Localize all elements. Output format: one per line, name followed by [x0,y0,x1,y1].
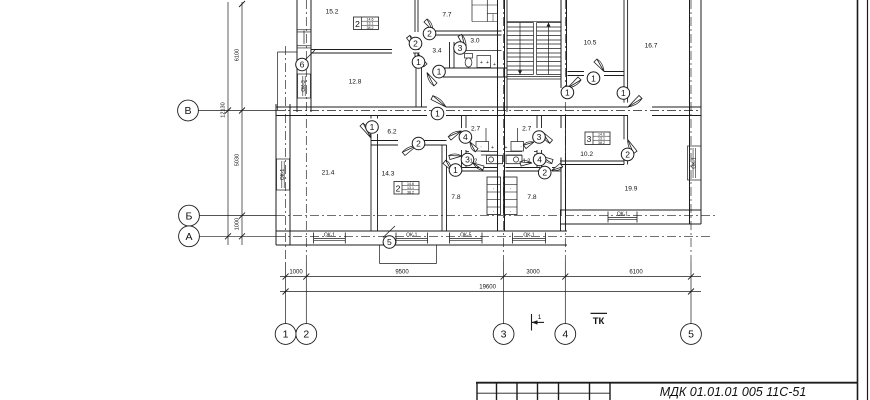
door 1 room 10.5 [594,59,604,72]
door 1 room 16.7 [628,96,642,108]
right wing left wall lower [560,158,562,216]
svg-text:3: 3 [537,132,542,142]
closet block top right [471,0,473,22]
window ОК-5 bottom [449,233,451,244]
svg-text:·: · [520,145,522,151]
svg-text:2: 2 [427,29,432,39]
svg-text:10.2: 10.2 [580,151,593,158]
svg-text:4: 4 [562,329,568,341]
bathroom unit mid wall right [506,151,523,153]
right wing bottom wall [560,209,701,211]
window ОК-1 right wing bottom [607,212,609,223]
svg-text:10.5: 10.5 [584,40,597,47]
svg-text:1000: 1000 [235,218,241,230]
svg-text:В: В [184,105,191,117]
svg-text:·: · [509,209,511,215]
svg-text:6.2: 6.2 [387,129,396,136]
svg-text:4: 4 [537,155,542,165]
axis line 3 vertical [503,0,505,262]
window ОК-1 left wall [277,159,290,190]
vent shaft right [504,177,518,215]
axis bubble А [179,226,200,247]
window ОК-1 bottom 3 [512,233,514,244]
axis line 2 vertical [305,0,307,262]
svg-text:1: 1 [565,87,570,97]
bath tub left 1.2 [487,155,503,163]
svg-text:16.7: 16.7 [645,43,658,50]
title block top border [476,382,858,384]
wall right of 15.2 [414,0,416,32]
svg-text:ОК-1: ОК-1 [280,169,286,180]
entrance porch [379,245,381,264]
kitchen top wall right [506,167,541,169]
axis line В horizontal [199,110,277,112]
svg-text:·: · [480,145,482,151]
toilet WC [465,54,473,59]
svg-text:38.2: 38.2 [598,141,605,145]
svg-text:3.0: 3.0 [470,38,479,45]
svg-text:2: 2 [413,39,418,49]
svg-text:1: 1 [437,67,442,77]
axis bubble 3 [493,324,514,345]
window ОК-1 right wall [688,146,702,180]
svg-text:ОК-3: ОК-3 [301,80,307,91]
stair wall right edge [506,0,508,112]
svg-text:9500: 9500 [395,270,409,276]
door 1 hall 3.4 [418,54,427,67]
svg-text:5: 5 [387,237,392,247]
svg-text:6: 6 [300,60,305,70]
svg-text:2: 2 [396,184,401,194]
sheet frame right inner line [857,0,859,400]
svg-text:1: 1 [538,314,542,321]
axis bubble В [178,100,199,121]
svg-text:5: 5 [688,329,694,341]
washbasin left 2.7 [476,142,489,152]
title block column lines [496,383,498,400]
window ОК-1 bottom 2 [395,233,397,244]
bathroom bottom wall [443,67,507,69]
legend table 2 room 15.2 [354,17,379,30]
corridor wall [276,106,427,108]
room 10.5 bottom wall [568,71,585,73]
svg-text:ОК-1: ОК-1 [523,233,534,239]
door 3 WC [458,34,466,50]
svg-text:3.4: 3.4 [432,48,441,55]
title block left edge [476,383,478,400]
wall between 10.2 and 19.9 [623,116,625,140]
svg-text:3: 3 [501,329,507,341]
door 2 room 19.9 [628,139,637,153]
window ОК-1 bottom 1 [313,233,315,244]
svg-text:1: 1 [416,57,421,67]
axis line 5 vertical [690,0,692,262]
bath WC [477,56,491,68]
bottom dimension line row2 [280,291,701,293]
svg-text:+: + [491,145,494,151]
wall between 21.4 and hall [370,116,372,119]
door 2 room 15.2 wall [407,35,416,49]
title block row line [477,392,610,394]
axis bubble Б [179,205,200,226]
kitchen top wall left [462,167,498,169]
door 1 apartment left entry [431,96,446,107]
window ОК-3 upper-left [298,74,311,98]
balcony room 12.8 [277,52,279,110]
svg-text:+: + [505,145,508,151]
axis bubble 5 [681,324,702,345]
svg-text:Б: Б [186,210,193,222]
svg-text:2: 2 [303,329,309,341]
door 2 room 15.2 top [424,19,433,31]
svg-text:ОК-1: ОК-1 [691,157,697,168]
WC divider wall [449,42,451,68]
WC shelf wall [454,50,502,52]
svg-text:·: · [509,187,511,193]
legend table 3 room 10.2 [585,132,610,145]
door 1 room 21.4 [360,123,371,138]
svg-text:12130: 12130 [221,102,227,118]
axis line 4 vertical [564,0,566,262]
svg-text:1: 1 [283,329,289,341]
bathroom top wall [433,30,502,32]
left dimension line 12130 [227,2,229,245]
vent shaft left [487,177,501,215]
svg-text:7.8: 7.8 [451,194,460,201]
opening jamb right wing [565,128,567,158]
svg-text:6100: 6100 [235,49,241,61]
exterior wall upper-left [296,0,298,112]
svg-text:1: 1 [370,122,375,132]
marker 6 with leader [296,58,309,71]
door 4 bathroom 2.7 left [448,131,461,140]
wall between 15.2 and 12.8 [311,49,392,51]
axis bubble 4 [555,324,576,345]
bathroom unit left wall [461,116,463,129]
axis bubble 2 [296,324,317,345]
svg-text:15.2: 15.2 [326,9,339,16]
wall between 10.5 and 16.7 [623,0,625,103]
hall 10.2 bottom wall [560,160,624,162]
svg-text:1.2: 1.2 [523,159,531,165]
central wall axis 3 [497,0,499,231]
svg-text:21.4: 21.4 [322,170,335,177]
svg-text:МДК 01.01.01 005 11С-51: МДК 01.01.01 005 11С-51 [660,385,807,399]
svg-text:1: 1 [453,165,458,175]
left dimension line segments [241,2,243,245]
axis line Б horizontal [199,215,276,217]
door 1 bathroom lobby [427,73,437,86]
svg-text:2.7: 2.7 [471,126,480,133]
svg-text:12.8: 12.8 [349,79,362,86]
window upper-left small [296,28,298,31]
bath tub right 1.2 [506,155,522,163]
svg-text:1: 1 [621,88,626,98]
stairwell right wall [560,0,562,88]
bathroom unit right wall [536,116,538,129]
axis line 1 vertical [285,46,287,262]
svg-text:7.8: 7.8 [527,194,536,201]
door 2 room 14.3 [402,146,417,156]
svg-text:38.2: 38.2 [367,26,374,30]
svg-text:3: 3 [587,134,592,144]
axis line А horizontal [199,235,276,237]
svg-text:2: 2 [416,139,421,149]
svg-text:2.7: 2.7 [522,126,531,133]
exterior wall bottom main [276,230,567,232]
svg-text:·: · [493,209,495,215]
svg-text:1: 1 [591,73,596,83]
bathroom unit mid wall [481,151,498,153]
exterior wall right [689,0,691,224]
section mark 1 [531,314,533,331]
marker 5 with leader [383,236,396,249]
svg-text:3: 3 [458,43,463,53]
svg-text:1000: 1000 [289,270,303,276]
bottom dimension line row1 [280,276,701,278]
right wing step wall [560,210,562,231]
svg-text:1: 1 [435,109,440,119]
door 1 stairwell [568,77,582,88]
door 2 kitchen right [552,164,563,171]
svg-text:38.2: 38.2 [407,190,414,194]
hall 6.2 bottom wall [371,140,398,142]
svg-text:2: 2 [542,168,547,178]
legend table 2 room 14.3 [394,182,419,195]
door 3 bathroom 1.2 left [449,156,462,160]
exterior wall lower-left [275,104,277,245]
svg-text:А: А [185,231,192,243]
svg-text:7.7: 7.7 [442,12,451,19]
TK text [591,312,608,314]
wall 12.8 right [414,53,416,68]
svg-text:+: + [486,60,489,66]
svg-text:2: 2 [625,149,630,159]
svg-text:·: · [493,187,495,193]
svg-text:5030: 5030 [235,154,241,166]
washbasin right 2.7 [511,142,524,152]
door 4 bathroom 1.2 right [541,156,553,164]
wall between 14.3 and 7.8 [441,145,443,231]
svg-text:ОК-1: ОК-1 [406,233,417,239]
door 3 bathroom 2.7 right [542,131,553,143]
svg-text:19.9: 19.9 [625,186,638,193]
svg-text:14.3: 14.3 [382,171,395,178]
svg-text:4: 4 [463,132,468,142]
right wing left wall upper [560,116,562,129]
door 1 kitchen left [443,160,452,170]
svg-text:19600: 19600 [479,285,496,291]
sheet frame right outer line [867,0,869,400]
svg-text:2: 2 [355,19,360,29]
staircase [507,22,534,24]
svg-text:3000: 3000 [526,270,540,276]
svg-text:+: + [493,62,496,68]
axis bubble 1 [275,324,296,345]
svg-text:ОК-5: ОК-5 [460,233,471,239]
svg-text:6100: 6100 [629,270,643,276]
lobby left wall [415,67,417,107]
svg-text:1.2: 1.2 [470,159,478,165]
svg-text:ОК-1: ОК-1 [617,212,628,218]
svg-text:+: + [480,60,483,66]
svg-text:ТК: ТК [593,316,605,327]
svg-text:ОК-1: ОК-1 [324,233,335,239]
